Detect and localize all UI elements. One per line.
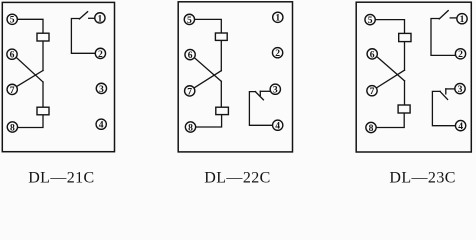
svg-text:3: 3 <box>99 84 104 95</box>
svg-text:7: 7 <box>10 85 15 96</box>
svg-text:2: 2 <box>98 49 103 60</box>
svg-text:1: 1 <box>98 13 103 24</box>
svg-text:5: 5 <box>187 15 192 26</box>
svg-text:8: 8 <box>188 122 193 133</box>
svg-text:2: 2 <box>275 48 280 59</box>
svg-text:8: 8 <box>10 122 15 133</box>
svg-text:6: 6 <box>10 50 15 61</box>
svg-text:DL—22C: DL—22C <box>204 169 270 186</box>
svg-text:5: 5 <box>10 15 15 26</box>
svg-text:7: 7 <box>187 86 192 97</box>
svg-text:3: 3 <box>273 85 278 96</box>
svg-text:2: 2 <box>458 49 463 60</box>
svg-text:1: 1 <box>275 13 280 24</box>
svg-text:4: 4 <box>99 120 104 131</box>
svg-text:5: 5 <box>368 15 373 26</box>
svg-text:6: 6 <box>370 49 375 60</box>
svg-text:7: 7 <box>370 86 375 97</box>
svg-text:DL—23C: DL—23C <box>389 169 455 186</box>
svg-text:4: 4 <box>275 121 280 132</box>
svg-text:6: 6 <box>188 50 193 61</box>
svg-text:3: 3 <box>458 84 463 95</box>
svg-text:4: 4 <box>458 121 463 132</box>
svg-text:1: 1 <box>460 14 465 25</box>
svg-text:DL—21C: DL—21C <box>28 169 94 186</box>
svg-text:8: 8 <box>369 123 374 134</box>
